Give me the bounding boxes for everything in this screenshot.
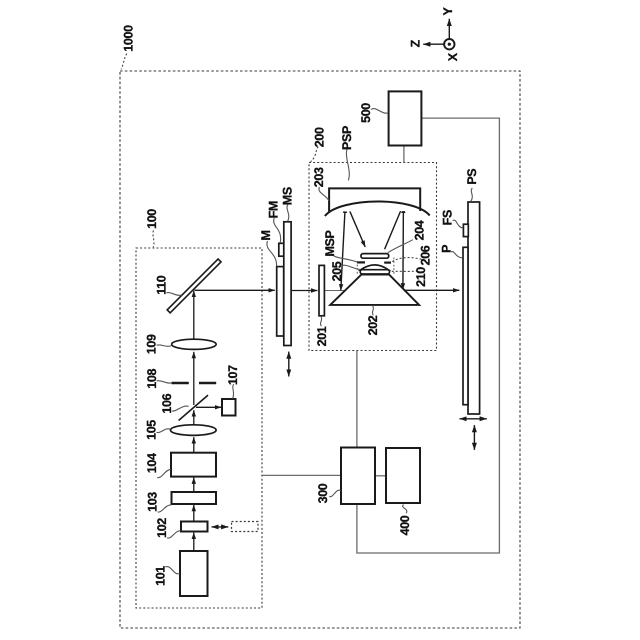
svg-text:210: 210 [414,267,428,287]
svg-text:101: 101 [153,566,167,586]
svg-text:PS: PS [465,169,479,185]
svg-text:1000: 1000 [121,25,135,52]
svg-text:103: 103 [146,492,160,512]
svg-text:104: 104 [145,453,159,473]
svg-text:Z: Z [409,39,423,47]
svg-text:M: M [259,230,273,240]
svg-text:105: 105 [145,420,159,440]
svg-text:110: 110 [155,275,169,295]
svg-text:Y: Y [441,7,455,16]
svg-text:FS: FS [441,210,455,225]
svg-text:200: 200 [312,127,326,147]
svg-text:106: 106 [160,393,174,413]
svg-text:201: 201 [315,326,329,346]
svg-text:107: 107 [226,365,240,385]
svg-text:204: 204 [412,220,426,240]
svg-text:108: 108 [145,369,159,389]
svg-text:X: X [446,52,460,61]
svg-text:MSP: MSP [323,230,337,256]
svg-text:300: 300 [316,483,330,503]
svg-text:202: 202 [366,315,380,335]
svg-text:102: 102 [155,518,169,538]
svg-text:203: 203 [312,167,326,187]
svg-text:205: 205 [330,261,344,281]
svg-text:206: 206 [419,245,433,265]
svg-text:P: P [439,245,453,253]
svg-text:500: 500 [359,103,373,123]
svg-text:MS: MS [281,187,295,205]
svg-text:109: 109 [145,334,159,354]
svg-text:400: 400 [398,515,412,535]
svg-text:PSP: PSP [340,126,354,150]
svg-text:FM: FM [267,201,281,218]
svg-text:100: 100 [145,209,159,229]
